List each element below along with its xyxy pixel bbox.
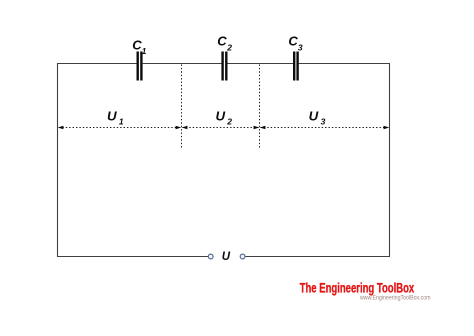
capacitor C2: [221, 52, 227, 81]
dimension line U3 (dotted): [261, 127, 389, 129]
dimension line U1 (dotted): [59, 127, 181, 129]
svg-text:3: 3: [321, 116, 326, 126]
node boundary dashed line between U1 and U2: [181, 65, 183, 150]
arrowhead pair at first boundary: [176, 126, 188, 129]
wire right side of loop: [389, 64, 391, 257]
wire bottom segment from terminal to right corner: [245, 256, 390, 258]
arrowhead left at wall: [58, 126, 64, 129]
svg-text:U: U: [216, 108, 226, 123]
svg-text:U: U: [309, 108, 319, 123]
arrowhead pair at second boundary: [254, 126, 266, 129]
svg-text:1: 1: [142, 46, 147, 56]
svg-text:C: C: [288, 34, 298, 49]
wire top segment C3 to right corner: [299, 63, 390, 65]
label U2: [216, 108, 233, 126]
capacitor C3: [293, 52, 299, 81]
svg-text:U: U: [222, 251, 231, 263]
svg-text:2: 2: [226, 116, 232, 126]
capacitor C1: [137, 52, 143, 81]
node boundary dashed line between U2 and U3: [259, 65, 261, 150]
terminal node left: [208, 254, 213, 259]
wire left side of loop: [57, 64, 59, 257]
svg-text:C: C: [217, 34, 227, 49]
wire bottom segment from left corner to terminal: [57, 256, 208, 258]
svg-text:3: 3: [298, 43, 303, 53]
label U1: [107, 108, 124, 126]
svg-text:U: U: [107, 108, 117, 123]
dimension line U2 (dotted): [183, 127, 259, 129]
label U3: [309, 108, 326, 126]
label C2: [217, 34, 232, 53]
wire top segment from left corner to C1: [57, 63, 137, 65]
label C1: [132, 37, 146, 56]
arrowhead right at wall: [384, 126, 390, 129]
label C3: [288, 34, 303, 53]
svg-text:2: 2: [226, 43, 232, 53]
wire top segment C2 to C3: [228, 63, 294, 65]
svg-text:1: 1: [119, 116, 124, 126]
svg-text:www.EngineeringToolBox.com: www.EngineeringToolBox.com: [359, 295, 431, 302]
wire top segment C1 to C2: [143, 63, 222, 65]
terminal node right: [240, 254, 245, 259]
